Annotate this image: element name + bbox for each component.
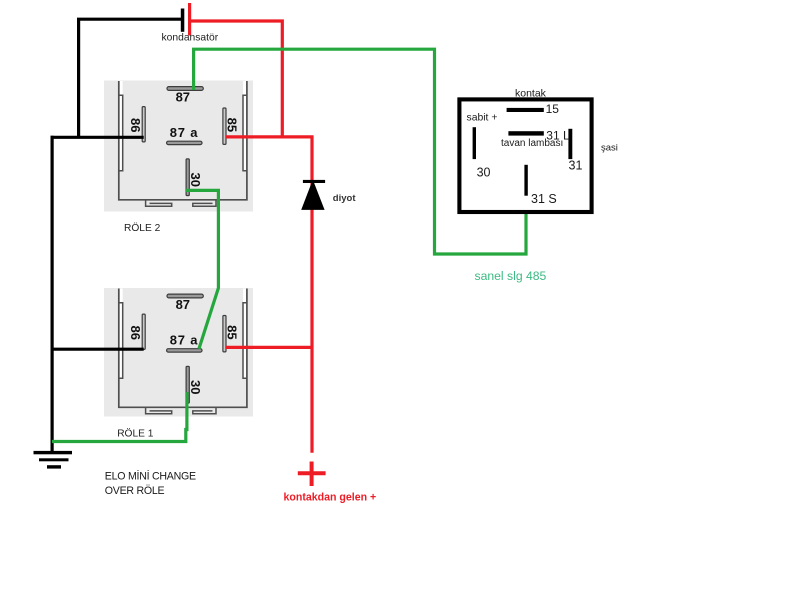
svg-text:diyot: diyot bbox=[333, 193, 357, 204]
svg-text:31 S: 31 S bbox=[531, 192, 557, 206]
svg-text:sanel slg 485: sanel slg 485 bbox=[475, 269, 547, 283]
svg-text:86: 86 bbox=[128, 118, 143, 132]
svg-text:kontakdan gelen +: kontakdan gelen + bbox=[284, 492, 377, 504]
svg-text:RÖLE 1: RÖLE 1 bbox=[117, 428, 154, 440]
svg-text:85: 85 bbox=[224, 325, 239, 339]
svg-text:kondansatör: kondansatör bbox=[162, 33, 219, 44]
svg-text:kontak: kontak bbox=[515, 88, 547, 100]
svg-text:87: 87 bbox=[176, 297, 190, 312]
svg-text:30: 30 bbox=[477, 165, 491, 179]
svg-text:şasi: şasi bbox=[601, 142, 618, 153]
svg-text:OVER RÖLE: OVER RÖLE bbox=[105, 485, 165, 497]
svg-text:31 L: 31 L bbox=[546, 128, 570, 142]
svg-text:31: 31 bbox=[569, 159, 583, 173]
svg-text:ELO MİNİ CHANGE: ELO MİNİ CHANGE bbox=[105, 470, 196, 483]
svg-text:sabit +: sabit + bbox=[467, 112, 498, 123]
svg-text:87 a: 87 a bbox=[170, 333, 199, 348]
svg-text:30: 30 bbox=[188, 380, 203, 394]
svg-text:RÖLE 2: RÖLE 2 bbox=[124, 222, 161, 234]
svg-text:86: 86 bbox=[128, 325, 143, 339]
svg-text:87 a: 87 a bbox=[170, 125, 199, 140]
svg-text:30: 30 bbox=[188, 172, 203, 186]
svg-text:87: 87 bbox=[176, 89, 190, 104]
svg-text:85: 85 bbox=[224, 118, 239, 132]
svg-text:15: 15 bbox=[546, 102, 560, 116]
